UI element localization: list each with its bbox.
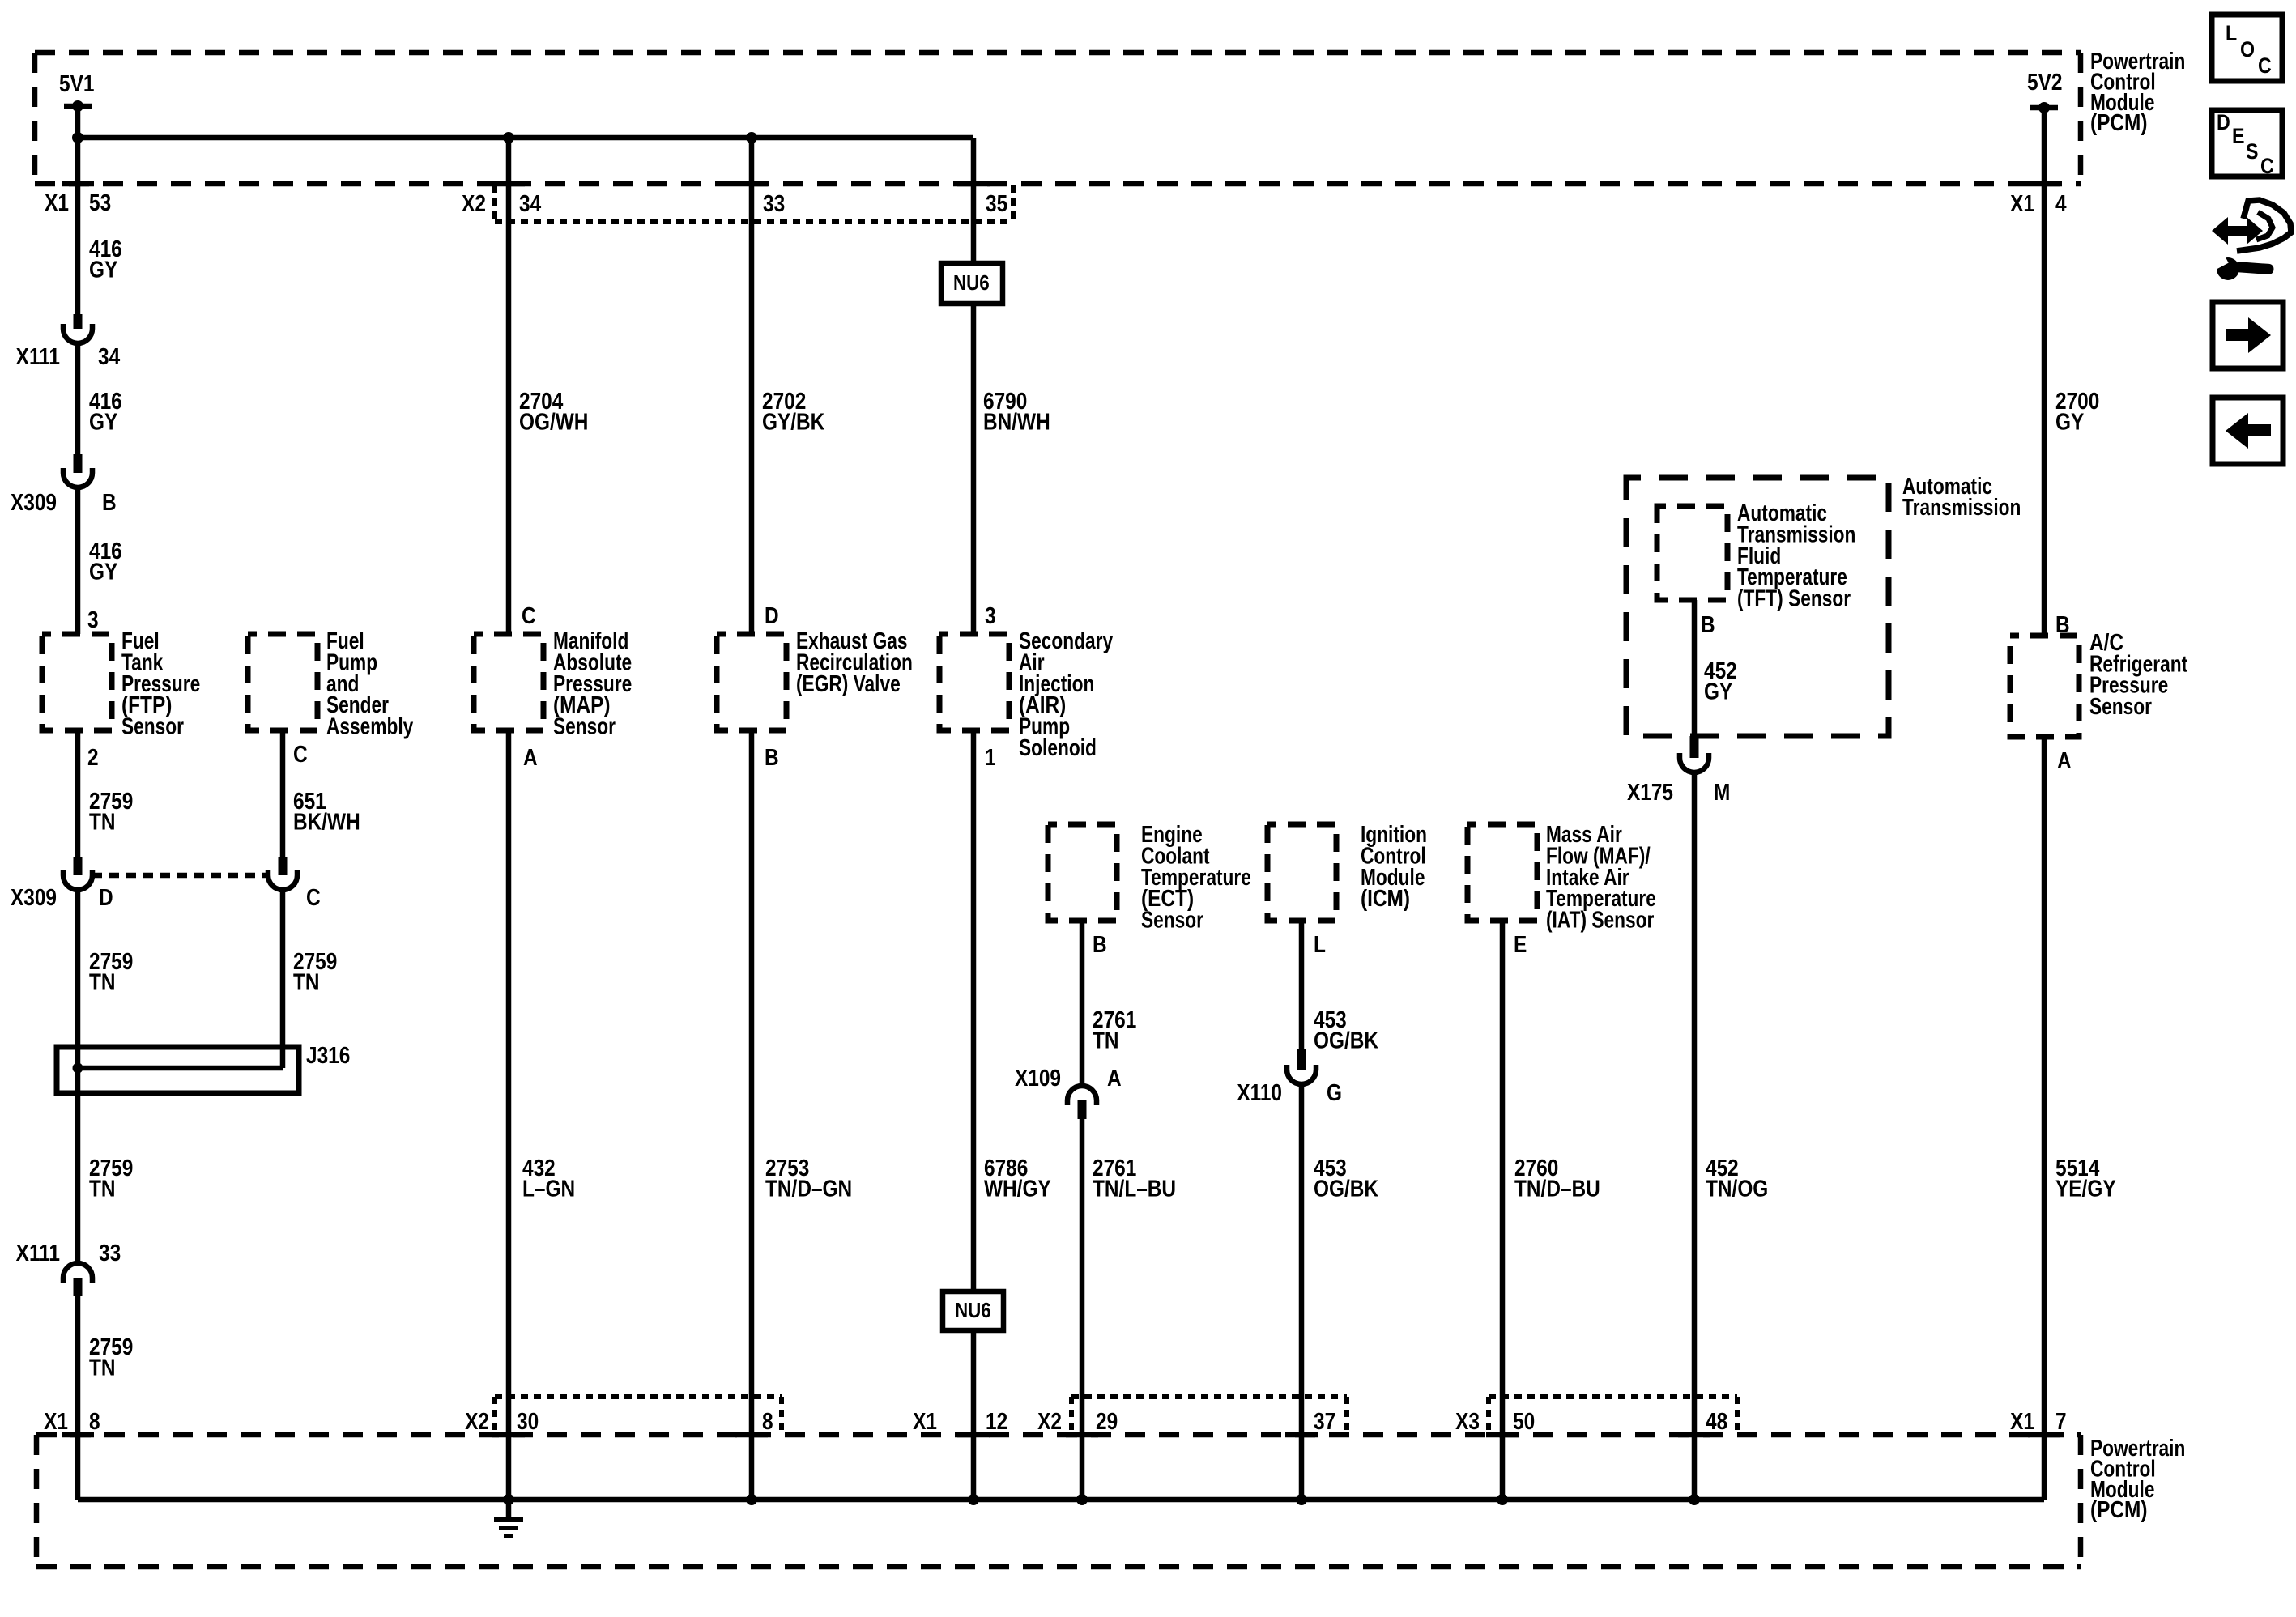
pin ticks bottom PCM edge (62, 1432, 94, 1438)
svg-text:37: 37 (1314, 1408, 1335, 1434)
X3 dotted connector box bottom (1489, 1397, 1737, 1435)
svg-text:X109: X109 (1015, 1065, 1061, 1091)
wire 2761 TN/L-BU (1080, 1119, 1085, 1500)
svg-text:B: B (1701, 611, 1715, 637)
wire top 5V1 reference bus (78, 135, 973, 141)
svg-text:L: L (2226, 21, 2237, 45)
svg-text:NU6: NU6 (953, 271, 990, 295)
svg-text:34: 34 (98, 343, 120, 369)
Powertrain Control Module (PCM) top dashed box (35, 53, 2081, 184)
Engine Coolant Temperature (ECT) Sensor box (1048, 824, 1117, 921)
svg-text:48: 48 (1706, 1408, 1727, 1434)
svg-text:Assembly: Assembly (326, 714, 414, 739)
svg-text:30: 30 (517, 1408, 539, 1434)
Automatic Transmission dashed box (1626, 478, 1889, 736)
svg-text:GY: GY (89, 409, 118, 435)
svg-text:J316: J316 (306, 1042, 350, 1068)
svg-text:12: 12 (986, 1408, 1007, 1434)
svg-text:TN/L–BU: TN/L–BU (1093, 1176, 1176, 1202)
wire 2760 TN/D-BU (1500, 921, 1506, 1500)
svg-text:(IAT) Sensor: (IAT) Sensor (1546, 908, 1654, 933)
svg-text:TN: TN (89, 1176, 116, 1202)
wire 5V1 stub (75, 106, 81, 138)
Ignition Control Module (ICM) box (1267, 824, 1336, 921)
wire 416 GY segment 2 (75, 343, 81, 456)
svg-text:E: E (2232, 124, 2244, 148)
svg-text:NU6: NU6 (955, 1299, 991, 1322)
fuse NU6 bottom (943, 1291, 1003, 1330)
svg-text:GY: GY (2055, 409, 2085, 435)
svg-text:TN/D–BU: TN/D–BU (1514, 1176, 1600, 1202)
svg-text:(TFT) Sensor: (TFT) Sensor (1737, 586, 1851, 611)
svg-text:35: 35 (986, 190, 1007, 216)
connector X110 pin G (1297, 1049, 1306, 1070)
svg-text:X2: X2 (465, 1408, 489, 1434)
svg-text:33: 33 (99, 1240, 121, 1266)
svg-text:X2: X2 (1037, 1408, 1062, 1434)
wire 453 OG/BK upper (1299, 921, 1305, 1051)
wire 2704 OG/WH (506, 138, 512, 634)
svg-text:1: 1 (985, 744, 996, 770)
wire 452 GY (1692, 600, 1698, 736)
svg-text:C: C (293, 741, 308, 767)
wire 5514 YE/GY (2042, 737, 2047, 1500)
svg-text:X309: X309 (11, 489, 57, 515)
svg-text:BN/WH: BN/WH (983, 409, 1050, 435)
Exhaust Gas Recirculation (EGR) Valve box (717, 634, 786, 730)
svg-text:B: B (102, 489, 117, 515)
wire 2759 TN segment 4 (75, 1296, 81, 1500)
svg-text:TN/D–GN: TN/D–GN (765, 1176, 852, 1202)
wire 2759 TN segment 1 (75, 730, 81, 858)
wire 6786 WH/GY (971, 730, 977, 1291)
svg-text:TN: TN (89, 969, 116, 995)
Manifold Absolute Pressure (MAP) Sensor box (474, 634, 543, 730)
svg-text:(ICM): (ICM) (1361, 885, 1410, 911)
svg-text:GY: GY (89, 257, 118, 283)
svg-text:M: M (1714, 779, 1730, 805)
svg-text:Transmission: Transmission (1902, 496, 2021, 521)
svg-text:GY/BK: GY/BK (762, 409, 824, 435)
svg-text:TN: TN (89, 809, 116, 835)
svg-text:X1: X1 (2010, 190, 2034, 216)
svg-text:D: D (765, 602, 779, 628)
svg-text:3: 3 (87, 606, 99, 632)
svg-text:C: C (2258, 53, 2272, 78)
svg-text:L–GN: L–GN (522, 1176, 575, 1202)
svg-text:X110: X110 (1237, 1079, 1282, 1105)
svg-text:7: 7 (2055, 1408, 2067, 1434)
svg-text:D: D (2217, 110, 2230, 134)
node 5V1 (64, 104, 92, 109)
Fuel Pump and Sender Assembly box (248, 634, 317, 730)
wire 452 TN/OG (1692, 772, 1698, 1500)
svg-text:X1: X1 (45, 189, 69, 215)
svg-text:Sensor: Sensor (2089, 695, 2152, 720)
wire 6790 BN/WH upper (971, 138, 977, 263)
splice J316 (57, 1047, 299, 1093)
svg-text:X175: X175 (1627, 779, 1673, 805)
svg-text:D: D (99, 884, 113, 910)
svg-text:Sensor: Sensor (121, 714, 184, 739)
wire 2759 TN from pump (280, 890, 286, 1068)
svg-text:GY: GY (89, 559, 118, 585)
icon DESC box (2212, 110, 2282, 177)
svg-text:A: A (1107, 1065, 1122, 1091)
wire 416 GY segment 1 (75, 138, 81, 316)
svg-text:Solenoid: Solenoid (1019, 736, 1097, 761)
svg-text:33: 33 (763, 190, 785, 216)
svg-text:OG/BK: OG/BK (1314, 1028, 1378, 1053)
svg-text:G: G (1327, 1079, 1342, 1105)
svg-text:OG/WH: OG/WH (519, 409, 588, 435)
wire 416 GY segment 3 (75, 487, 81, 634)
wire 2702 GY/BK (749, 138, 755, 634)
icon service arrows/wrench (2209, 200, 2291, 280)
svg-text:TN: TN (293, 969, 320, 995)
svg-text:A: A (523, 744, 538, 770)
connector X309 pin B (74, 454, 83, 473)
svg-text:4: 4 (2055, 190, 2067, 216)
svg-text:5V1: 5V1 (59, 70, 94, 96)
svg-text:X1: X1 (2010, 1408, 2034, 1434)
svg-text:L: L (1314, 931, 1326, 957)
icon arrow left box (2213, 398, 2283, 464)
icon arrow right box (2213, 302, 2283, 368)
svg-text:(PCM): (PCM) (2090, 109, 2147, 135)
svg-text:X3: X3 (1455, 1408, 1480, 1434)
svg-text:OG/BK: OG/BK (1314, 1176, 1378, 1202)
fuse NU6 top (941, 263, 1003, 304)
svg-text:3: 3 (985, 602, 996, 628)
svg-text:B: B (1093, 931, 1107, 957)
connector X111 pin 34 (74, 314, 83, 329)
Fuel Tank Pressure (FTP) Sensor box (42, 634, 112, 730)
svg-text:50: 50 (1513, 1408, 1535, 1434)
svg-text:O: O (2240, 37, 2255, 62)
svg-text:34: 34 (519, 190, 541, 216)
svg-text:(EGR) Valve: (EGR) Valve (796, 672, 901, 697)
svg-text:X1: X1 (44, 1408, 68, 1434)
X2 dotted connector box top (495, 185, 1013, 222)
svg-text:X309: X309 (11, 884, 57, 910)
wire 651 BK/WH (280, 730, 286, 858)
X2 dotted connector box bottom-mid (1071, 1397, 1347, 1435)
svg-text:8: 8 (89, 1408, 100, 1434)
Powertrain Control Module (PCM) bottom dashed box (36, 1435, 2081, 1567)
icon LOC box (2212, 15, 2282, 81)
node 5V2 (2030, 105, 2058, 111)
svg-text:TN: TN (1093, 1028, 1119, 1053)
svg-text:Sensor: Sensor (1141, 908, 1203, 933)
wire 2700 GY (2042, 108, 2047, 636)
pin ticks top PCM edge (62, 181, 94, 187)
A/C Refrigerant Pressure Sensor box (2010, 636, 2079, 737)
svg-text:29: 29 (1096, 1408, 1118, 1434)
wire 2759 TN segment 2 (75, 890, 81, 1262)
svg-text:8: 8 (762, 1408, 773, 1434)
svg-text:TN: TN (89, 1355, 116, 1381)
svg-text:B: B (765, 744, 779, 770)
svg-text:A: A (2057, 747, 2072, 773)
svg-text:WH/GY: WH/GY (984, 1176, 1051, 1202)
connector X111 pin 33 (63, 1263, 92, 1283)
svg-text:Sensor: Sensor (553, 714, 616, 739)
svg-text:2: 2 (87, 744, 99, 770)
svg-text:C: C (306, 884, 321, 910)
ground symbol (506, 1500, 512, 1519)
wire 2753 TN/D-GN (749, 730, 755, 1500)
svg-text:GY: GY (1704, 679, 1733, 704)
connector X309 halves dashed tie (92, 873, 268, 879)
connector X309 pin D (74, 857, 83, 875)
connector X109 pin A (1067, 1086, 1097, 1105)
svg-text:YE/GY: YE/GY (2055, 1176, 2116, 1202)
svg-text:X111: X111 (16, 343, 60, 369)
svg-text:S: S (2246, 139, 2258, 164)
svg-text:E: E (1514, 931, 1527, 957)
svg-text:C: C (522, 602, 536, 628)
svg-text:(PCM): (PCM) (2090, 1496, 2147, 1522)
svg-text:53: 53 (89, 189, 111, 215)
wire 2761 TN (1080, 921, 1085, 1086)
wire 432 L-GN (506, 730, 512, 1500)
svg-text:X1: X1 (913, 1408, 937, 1434)
svg-text:BK/WH: BK/WH (293, 809, 360, 835)
wire bottom ground bus (78, 1497, 2044, 1503)
svg-text:X111: X111 (16, 1240, 60, 1266)
svg-text:C: C (2260, 154, 2274, 178)
connector X175 pin M (1690, 736, 1699, 758)
wire 453 OG/BK lower (1299, 1084, 1305, 1500)
connector X309 pin C (279, 857, 288, 875)
svg-text:5V2: 5V2 (2027, 69, 2062, 95)
Secondary Air Injection (AIR) Pump Solenoid box (939, 634, 1009, 730)
svg-text:X2: X2 (462, 190, 486, 216)
X2 dotted connector box bottom-left (495, 1397, 782, 1435)
Mass Air Flow (MAF)/Intake Air Temperature (IAT) Sensor box (1467, 824, 1537, 921)
Automatic Transmission Fluid Temperature (TFT) Sensor box (1657, 506, 1727, 600)
svg-text:TN/OG: TN/OG (1706, 1176, 1768, 1202)
